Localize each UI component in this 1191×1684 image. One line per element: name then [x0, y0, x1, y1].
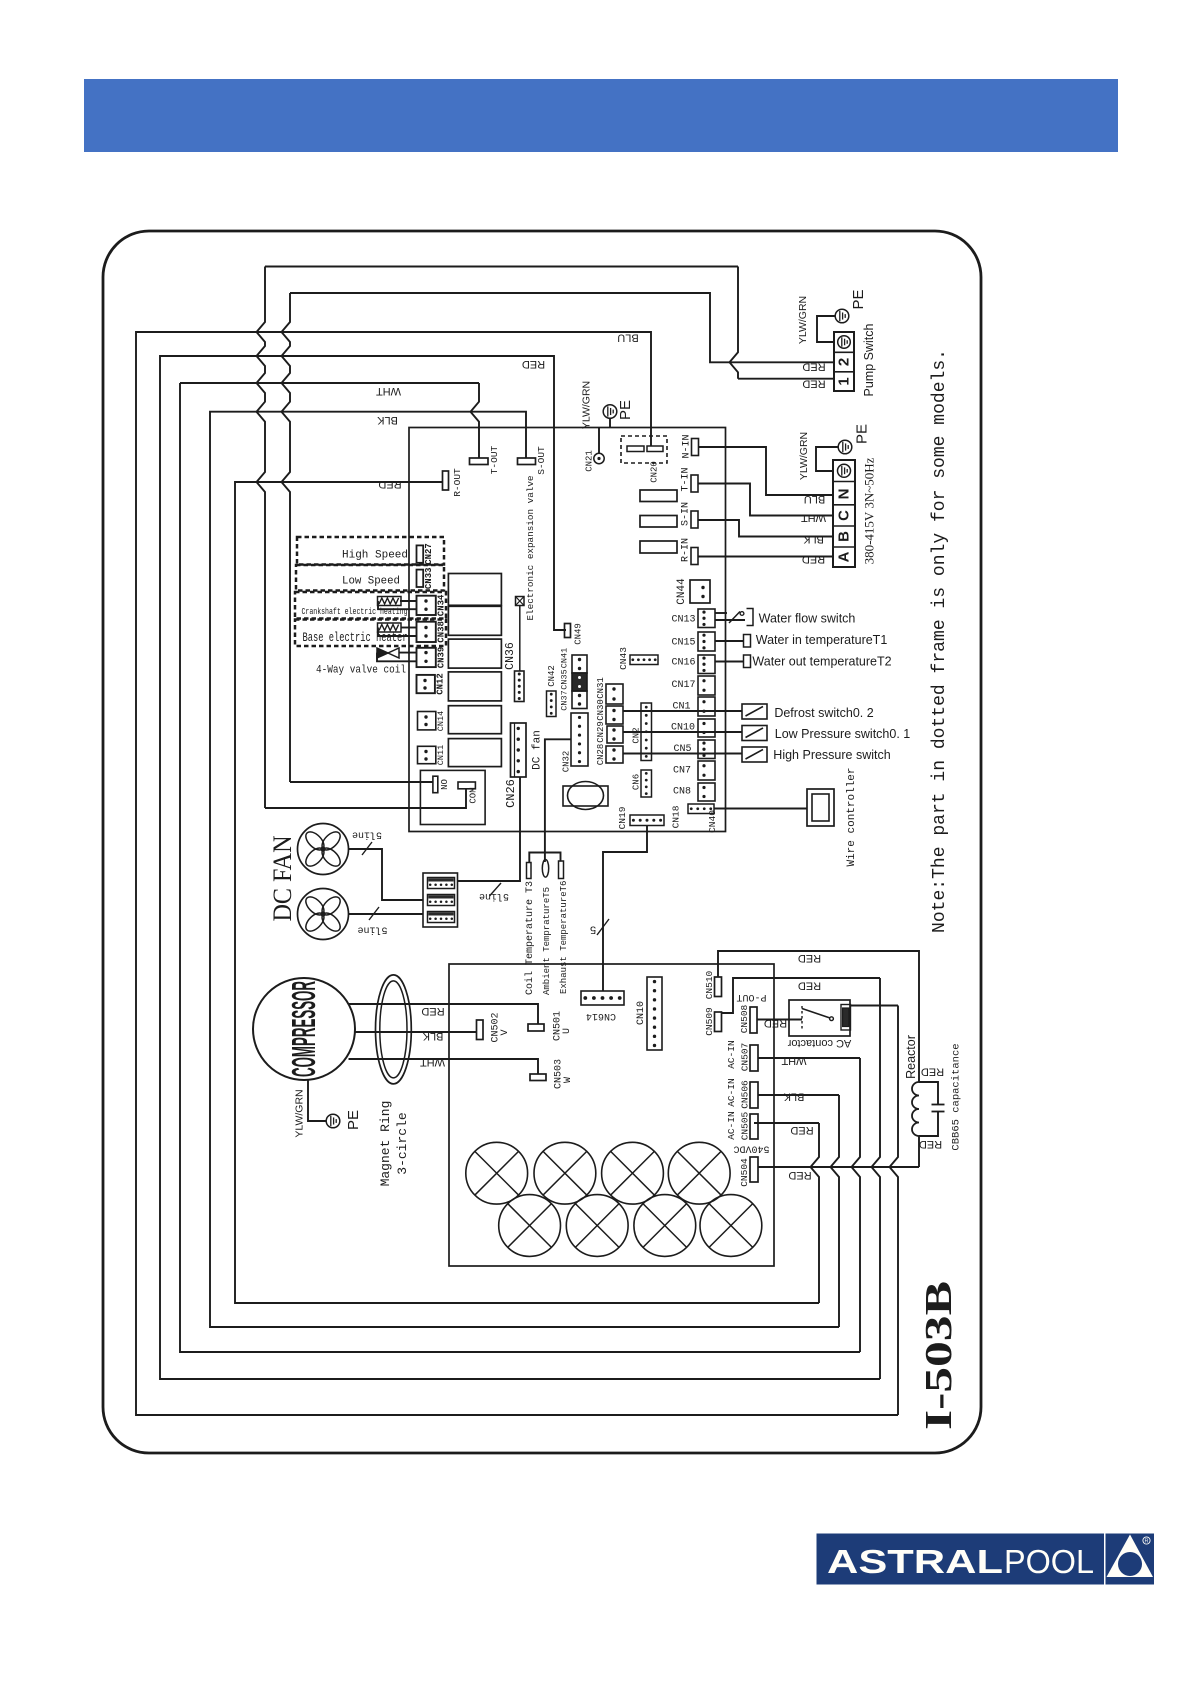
svg-text:U: U — [562, 1028, 573, 1034]
svg-text:V: V — [500, 1029, 511, 1035]
svg-text:CN36: CN36 — [504, 642, 517, 670]
svg-text:RED: RED — [421, 1005, 444, 1017]
svg-text:DC FAN: DC FAN — [268, 835, 297, 921]
svg-text:COMPRESSOR: COMPRESSOR — [285, 981, 322, 1077]
svg-text:Reactor: Reactor — [904, 1035, 918, 1079]
svg-text:2: 2 — [835, 358, 852, 366]
svg-text:DC fan: DC fan — [531, 730, 543, 770]
svg-text:B: B — [835, 531, 852, 542]
svg-text:BLK: BLK — [783, 1091, 804, 1103]
svg-text:CN20: CN20 — [649, 461, 659, 483]
svg-text:PE: PE — [617, 400, 634, 420]
svg-text:CN38: CN38 — [436, 621, 446, 643]
svg-text:Electronic expansion valve: Electronic expansion valve — [525, 475, 536, 620]
svg-text:YLW/GRN: YLW/GRN — [581, 381, 593, 429]
svg-text:High Speed: High Speed — [342, 550, 408, 562]
svg-text:N-IN: N-IN — [682, 434, 693, 458]
svg-text:RED: RED — [921, 1066, 944, 1078]
svg-text:AC-IN: AC-IN — [726, 1040, 737, 1069]
svg-text:CN31: CN31 — [596, 677, 606, 699]
svg-text:S-OUT: S-OUT — [536, 446, 547, 475]
svg-text:BLK: BLK — [802, 533, 823, 545]
svg-text:AC contactor: AC contactor — [787, 1037, 851, 1049]
svg-text:4-Way valve coil: 4-Way valve coil — [316, 665, 406, 677]
svg-text:CN13: CN13 — [671, 615, 695, 626]
svg-text:CN33: CN33 — [424, 567, 434, 589]
svg-text:CN26: CN26 — [504, 779, 518, 808]
svg-text:CN508: CN508 — [739, 1004, 750, 1033]
svg-text:CN8: CN8 — [673, 787, 691, 798]
svg-text:CN12: CN12 — [435, 673, 445, 695]
svg-text:RED: RED — [802, 361, 825, 373]
svg-text:CN6: CN6 — [631, 774, 641, 790]
svg-text:R-OUT: R-OUT — [452, 468, 463, 497]
svg-text:COM: COM — [468, 787, 478, 803]
svg-text:CBB65 capacitance: CBB65 capacitance — [951, 1043, 963, 1150]
svg-text:380-415V 3N~50Hz: 380-415V 3N~50Hz — [861, 457, 876, 564]
svg-text:CN43: CN43 — [618, 647, 629, 670]
svg-text:T-IN: T-IN — [681, 467, 692, 491]
svg-text:CN1: CN1 — [672, 702, 690, 713]
svg-text:5: 5 — [590, 923, 597, 935]
svg-text:Wire controller: Wire controller — [846, 767, 858, 866]
svg-text:RED: RED — [522, 358, 545, 370]
svg-text:RED: RED — [798, 980, 821, 992]
svg-text:CN35: CN35 — [560, 669, 570, 689]
svg-text:RED: RED — [790, 1124, 813, 1136]
svg-text:YLW/GRN: YLW/GRN — [294, 1089, 306, 1137]
svg-text:RED: RED — [802, 378, 825, 390]
svg-text:CN34: CN34 — [436, 594, 446, 616]
svg-text:CN502: CN502 — [491, 1012, 502, 1042]
svg-text:CN14: CN14 — [436, 711, 446, 731]
svg-text:Magnet Ring: Magnet Ring — [378, 1101, 393, 1187]
svg-text:A: A — [835, 551, 852, 562]
svg-text:High Pressure switch: High Pressure switch — [773, 748, 890, 762]
svg-text:RED: RED — [788, 1169, 811, 1181]
svg-text:BLK: BLK — [422, 1030, 443, 1042]
svg-text:5line: 5line — [479, 890, 509, 902]
svg-text:AC-IN: AC-IN — [726, 1078, 737, 1107]
svg-text:CN21: CN21 — [584, 450, 594, 472]
svg-text:R: R — [1145, 1539, 1149, 1545]
svg-text:W: W — [563, 1077, 574, 1083]
svg-text:540VDC: 540VDC — [733, 1142, 769, 1153]
svg-text:ASTRAL: ASTRAL — [827, 1543, 1003, 1580]
svg-text:CN503: CN503 — [554, 1059, 565, 1089]
svg-text:Ambient TempratureT5: Ambient TempratureT5 — [542, 887, 552, 995]
svg-text:RED: RED — [378, 478, 401, 490]
svg-text:CN10: CN10 — [671, 723, 695, 734]
svg-text:CN28: CN28 — [596, 744, 606, 766]
svg-text:WHT: WHT — [420, 1056, 445, 1068]
svg-text:3-circle: 3-circle — [395, 1112, 410, 1174]
svg-text:CN39: CN39 — [436, 647, 446, 669]
svg-text:NO: NO — [440, 779, 450, 790]
svg-text:P-OUT: P-OUT — [736, 991, 766, 1002]
svg-text:CN501: CN501 — [553, 1011, 564, 1041]
svg-text:CN10: CN10 — [636, 1001, 647, 1025]
svg-text:5line: 5line — [352, 828, 382, 840]
svg-text:PE: PE — [850, 289, 867, 309]
svg-text:CN5: CN5 — [673, 744, 691, 755]
svg-text:CN32: CN32 — [561, 751, 571, 773]
svg-text:CN44: CN44 — [676, 578, 688, 605]
svg-text:RED: RED — [798, 952, 821, 964]
svg-text:AC-IN: AC-IN — [726, 1111, 737, 1140]
svg-text:CN42: CN42 — [547, 665, 557, 687]
svg-text:CN2: CN2 — [631, 727, 641, 743]
svg-text:CN37: CN37 — [560, 690, 570, 710]
svg-text:BLK: BLK — [376, 414, 397, 426]
svg-text:YLW/GRN: YLW/GRN — [798, 432, 810, 480]
svg-text:CN506: CN506 — [739, 1080, 750, 1109]
svg-text:RED: RED — [764, 1017, 787, 1029]
svg-text:CN15: CN15 — [671, 638, 695, 649]
svg-text:Coil Temperature T3: Coil Temperature T3 — [524, 881, 536, 995]
svg-text:CN507: CN507 — [739, 1043, 750, 1072]
svg-text:Exhaust TemperatureT6: Exhaust TemperatureT6 — [559, 881, 569, 994]
svg-text:Low Pressure switch0. 1: Low Pressure switch0. 1 — [775, 727, 911, 741]
svg-text:CN19: CN19 — [617, 806, 628, 829]
svg-text:CN41: CN41 — [560, 648, 570, 668]
svg-text:1: 1 — [835, 377, 852, 385]
svg-text:RED: RED — [919, 1138, 942, 1150]
svg-text:CN40: CN40 — [707, 810, 718, 833]
svg-text:Note:The part in dotted frame: Note:The part in dotted frame is only fo… — [930, 349, 950, 933]
svg-text:CN7: CN7 — [673, 766, 691, 777]
svg-text:CN18: CN18 — [670, 805, 681, 828]
svg-text:CN509: CN509 — [704, 1007, 715, 1036]
svg-text:5line: 5line — [357, 923, 387, 935]
svg-text:BLU: BLU — [617, 332, 638, 344]
svg-text:CN30: CN30 — [596, 699, 606, 721]
svg-text:CN17: CN17 — [671, 680, 695, 691]
svg-text:Base electric heater: Base electric heater — [303, 631, 408, 645]
svg-text:T-OUT: T-OUT — [489, 445, 500, 474]
svg-text:Pump Switch: Pump Switch — [862, 323, 876, 396]
svg-text:R-IN: R-IN — [681, 538, 692, 562]
svg-text:CN49: CN49 — [573, 623, 583, 645]
svg-text:Water out temperatureT2: Water out temperatureT2 — [752, 655, 891, 669]
svg-text:WHT: WHT — [781, 1055, 806, 1067]
svg-text:CN16: CN16 — [671, 658, 695, 669]
svg-text:Defrost switch0. 2: Defrost switch0. 2 — [774, 706, 873, 720]
svg-text:I-503B: I-503B — [918, 1281, 960, 1430]
svg-text:CN11: CN11 — [436, 745, 446, 765]
svg-text:CN510: CN510 — [704, 970, 715, 999]
svg-text:CN505: CN505 — [739, 1111, 750, 1140]
svg-text:WHT: WHT — [376, 385, 401, 397]
svg-text:POOL: POOL — [1004, 1543, 1094, 1580]
svg-text:WHT: WHT — [801, 512, 826, 524]
svg-text:PE: PE — [853, 424, 870, 444]
svg-text:BLU: BLU — [804, 493, 825, 505]
svg-text:Crankshaft electric heating: Crankshaft electric heating — [302, 607, 408, 617]
svg-text:PE: PE — [345, 1110, 362, 1130]
svg-text:Low Speed: Low Speed — [342, 576, 400, 588]
svg-text:RED: RED — [802, 553, 825, 565]
svg-text:CN27: CN27 — [424, 543, 434, 565]
svg-text:C: C — [835, 510, 852, 521]
svg-text:CN504: CN504 — [739, 1158, 750, 1187]
svg-text:CN614: CN614 — [586, 1010, 616, 1021]
svg-text:Water in temperatureT1: Water in temperatureT1 — [756, 633, 888, 647]
svg-text:YLW/GRN: YLW/GRN — [797, 296, 809, 344]
svg-text:N: N — [835, 489, 852, 500]
svg-text:S-IN: S-IN — [681, 502, 692, 526]
svg-text:CN29: CN29 — [596, 721, 606, 743]
svg-text:Water flow switch: Water flow switch — [759, 612, 856, 626]
